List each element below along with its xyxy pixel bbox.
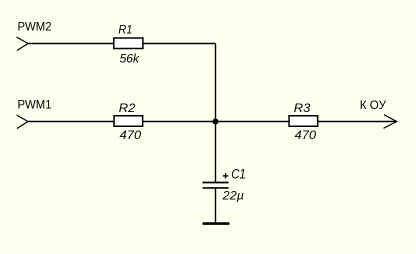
svg-text:22µ: 22µ (222, 188, 244, 202)
wire junction down to C1 (215, 122, 217, 183)
svg-text:R2: R2 (119, 101, 136, 115)
wire R2 to R3 (143, 121, 289, 123)
capacitor C1 top plate (203, 182, 229, 184)
resistor R1 (114, 38, 143, 49)
capacitor C1 bottom plate (203, 187, 229, 189)
resistor R3 (289, 116, 318, 127)
svg-text:R1: R1 (118, 23, 132, 37)
svg-text:К ОУ: К ОУ (360, 98, 386, 112)
plus polarity mark (223, 173, 228, 178)
port output arrow (384, 115, 397, 129)
port PWM1 input chevron (17, 115, 29, 129)
ground (203, 222, 230, 225)
wire R3 to output (318, 121, 397, 123)
junction node dot (213, 119, 219, 125)
wire corner down to junction (215, 44, 217, 122)
svg-text:470: 470 (120, 128, 141, 142)
svg-text:56k: 56k (120, 51, 140, 65)
svg-text:C1: C1 (231, 167, 246, 182)
wire C1 to ground (215, 189, 217, 223)
wire PWM1 to R2 (28, 121, 114, 123)
svg-text:PWM1: PWM1 (18, 98, 52, 112)
resistor R2 (114, 116, 143, 127)
wire R1 to corner (143, 43, 215, 45)
svg-text:R3: R3 (294, 101, 311, 115)
svg-text:PWM2: PWM2 (18, 20, 52, 34)
port PWM2 input chevron (17, 37, 29, 51)
svg-text:470: 470 (295, 128, 316, 142)
wire PWM2 to R1 (28, 43, 114, 45)
